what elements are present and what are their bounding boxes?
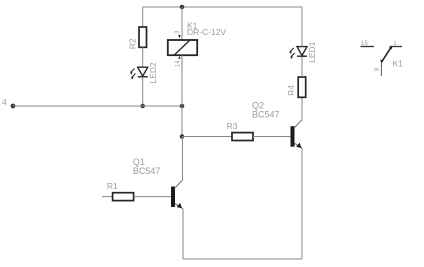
wire common terminal [380,62,382,76]
blade end arrow [380,60,383,63]
wire LED1 to top rail [301,7,303,47]
resistor R1 [113,193,134,201]
svg-text:LED1: LED1 [307,41,317,63]
resistor R2 [139,27,147,47]
svg-text:R4: R4 [286,85,296,96]
wire R4 to LED1 [301,56,303,77]
transistor Q2 [252,101,302,149]
wire LED2 to net 4 [142,77,144,106]
svg-text:R3: R3 [227,121,238,131]
contact blade pivot dot [389,46,392,49]
wire Q1 emitter down [182,209,184,260]
wire relay coil down through net4 to base net [181,55,183,136]
svg-text:BC547: BC547 [133,166,161,176]
svg-text:R2: R2 [128,38,138,49]
relay coil K1 [168,20,227,67]
LED LED2 [138,67,148,77]
svg-text:BC547: BC547 [252,109,280,119]
wire Q2 emitter down [301,148,303,259]
terminal 15 [361,46,375,48]
svg-text:K1: K1 [393,59,404,69]
transistor Q1 [133,157,183,208]
wire top rail to relay coil [181,7,183,40]
node top-rail junction [180,5,185,10]
wire net 4 [13,105,182,107]
svg-text:DR-C-12V: DR-C-12V [187,27,227,37]
node base net [180,134,185,139]
wire top rail to R2 [142,7,144,27]
pin 14 arrow [178,56,181,59]
wire Q2 collector to R4 [301,98,303,120]
node net4 / relay branch [180,104,185,109]
wire top rail [143,6,302,8]
svg-text:8: 8 [374,67,381,71]
svg-text:LED2: LED2 [148,62,158,84]
svg-text:R1: R1 [107,181,118,191]
wire bottom rail [183,258,302,260]
wire R1 left stub [102,196,113,198]
wire R2 to LED2 [142,47,144,67]
node net4 / LED2 [140,104,145,109]
relay contact K1 [361,40,404,76]
contact blade [381,48,390,63]
wire base net to Q1 collector [182,137,184,181]
resistor R4 [298,77,306,97]
svg-text:14: 14 [176,60,182,67]
wire R3 to Q2 base [253,136,291,138]
terminal 1 [390,46,402,48]
LED LED1 [297,47,307,57]
resistor R3 [232,133,253,141]
pin 3 arrow [178,35,181,38]
wire base net to R3 [182,136,232,138]
connection dot net 4 [11,104,16,109]
svg-text:4: 4 [2,97,7,107]
wire R1 to Q1 base [134,196,171,198]
